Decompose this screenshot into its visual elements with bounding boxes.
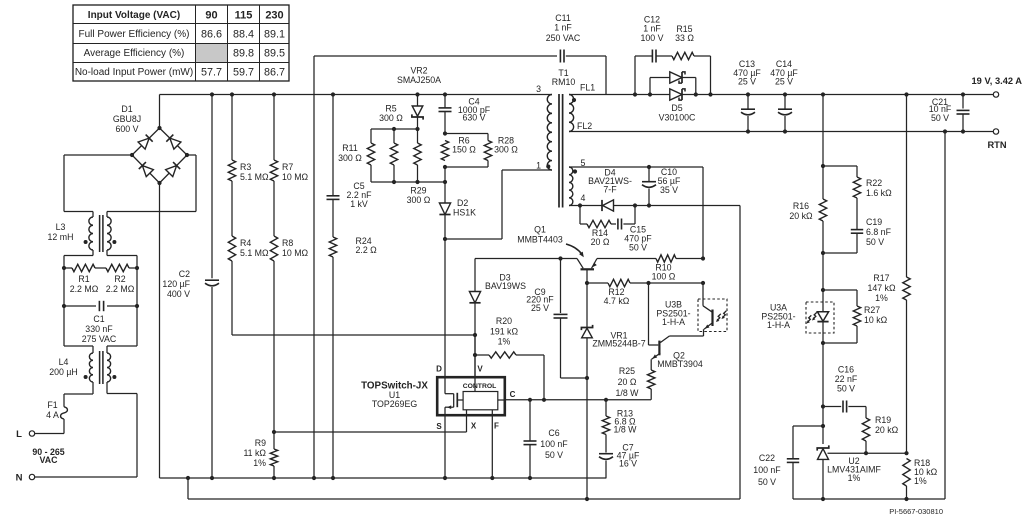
transformer T1 secondary winding FL1-FL2 — [569, 83, 595, 132]
svg-text:R8: R8 — [282, 238, 293, 248]
capacitor C21 — [929, 95, 970, 132]
capacitor C12 — [635, 15, 664, 95]
resistor R15 — [656, 24, 711, 95]
diode D5 lower — [659, 89, 696, 123]
svg-text:100 nF: 100 nF — [540, 439, 568, 449]
svg-text:11 kΩ: 11 kΩ — [243, 448, 266, 458]
svg-text:GBU8J: GBU8J — [113, 114, 141, 124]
node R6 bracket junctions — [443, 131, 447, 169]
resistor R6 — [441, 136, 476, 161]
wire R1R2 to L3 left — [64, 250, 93, 268]
svg-text:191 kΩ: 191 kΩ — [490, 327, 519, 337]
svg-text:300 Ω: 300 Ω — [379, 113, 403, 123]
node RTN rail junctions — [746, 129, 965, 133]
wire U1 F pin — [491, 410, 493, 478]
node clamp bottom junctions — [392, 180, 447, 184]
svg-text:HS1K: HS1K — [453, 208, 476, 218]
svg-text:Input Voltage (VAC): Input Voltage (VAC) — [88, 10, 180, 21]
capacitor C15 — [611, 206, 652, 253]
IC U1 TOPSwitch-JX TOP269EG — [361, 365, 516, 432]
wire U1 drain pin D — [444, 239, 446, 377]
svg-text:X: X — [471, 422, 477, 431]
svg-text:R20: R20 — [496, 316, 512, 326]
node C9 junction — [558, 256, 562, 260]
node output rail junctions — [746, 92, 965, 96]
terminal L — [16, 429, 35, 440]
svg-text:89.8: 89.8 — [233, 47, 254, 59]
svg-text:C11: C11 — [555, 13, 571, 23]
svg-text:25 V: 25 V — [738, 77, 756, 87]
capacitor C2 — [162, 95, 219, 479]
wire source bus to bus2 — [188, 478, 740, 499]
svg-text:100 Ω: 100 Ω — [652, 272, 676, 282]
terminal RTN — [987, 129, 1006, 150]
svg-text:50 V: 50 V — [866, 237, 884, 247]
resistor R4 — [228, 181, 269, 335]
wire V-pin sense line — [232, 334, 475, 336]
resistor R13 — [602, 400, 637, 435]
wire U1 S pin — [444, 415, 446, 478]
svg-text:10 kΩ: 10 kΩ — [864, 315, 888, 325]
transformer T1 bias winding pin5-4 — [569, 158, 586, 205]
capacitor C1 — [64, 301, 137, 344]
capacitor C9 — [526, 259, 587, 379]
node opto LED junctions — [821, 288, 825, 345]
diode D5 upper branch — [650, 72, 696, 95]
svg-text:1/8 W: 1/8 W — [616, 388, 640, 398]
svg-text:5.1 MΩ: 5.1 MΩ — [240, 248, 269, 258]
resistor R9 — [243, 432, 277, 478]
resistor R7 — [270, 95, 308, 183]
fuse F1 — [46, 400, 67, 420]
wire L3 to bridge left — [64, 155, 132, 217]
terminal output +19V — [972, 76, 1023, 97]
svg-text:L4: L4 — [59, 357, 69, 367]
resistor R27 — [823, 290, 888, 343]
svg-text:R5: R5 — [385, 104, 396, 114]
resistor R1 — [70, 264, 99, 294]
svg-text:10 MΩ: 10 MΩ — [282, 248, 309, 258]
svg-text:35 V: 35 V — [660, 185, 678, 195]
resistor R14 — [580, 206, 611, 248]
transformer T1 primary winding pin3-1 — [536, 84, 552, 171]
svg-text:25 V: 25 V — [775, 77, 793, 87]
svg-text:600 V: 600 V — [116, 124, 139, 134]
svg-text:R22: R22 — [866, 178, 882, 188]
svg-text:C2: C2 — [179, 269, 190, 279]
svg-text:50 V: 50 V — [545, 450, 563, 460]
svg-text:RTN: RTN — [987, 140, 1006, 150]
wire U1 V pin — [474, 335, 476, 392]
wire R1R2 to L3 right — [107, 250, 137, 268]
svg-text:7-F: 7-F — [603, 185, 617, 195]
svg-text:R19: R19 — [875, 415, 891, 425]
transistor Q1 MMBT4403 (PNP) — [517, 225, 597, 284]
wire U2 ref line — [828, 452, 907, 454]
resistor R16 — [789, 166, 826, 253]
svg-text:No-load Input Power (mW): No-load Input Power (mW) — [75, 67, 193, 78]
svg-text:59.7: 59.7 — [233, 66, 254, 78]
svg-text:50 V: 50 V — [837, 384, 855, 394]
wire Q1 collector line — [475, 258, 577, 260]
node VR1/C9 junction — [585, 376, 589, 380]
wire R16 to opto LED — [822, 253, 824, 290]
wire secondary ground rail — [793, 132, 945, 500]
capacitor C10 — [642, 167, 681, 206]
wire FL2 RTN rail — [569, 131, 993, 133]
node bus2 junction — [585, 497, 589, 501]
resistor R22 — [823, 166, 892, 198]
svg-text:100 V: 100 V — [641, 33, 664, 43]
svg-text:BAV19WS: BAV19WS — [485, 281, 526, 291]
svg-text:Q1: Q1 — [534, 225, 546, 235]
wire primary source bus — [160, 477, 607, 479]
svg-text:1 kV: 1 kV — [350, 199, 368, 209]
node D5 junctions — [633, 92, 713, 96]
shunt regulator U2 LMV431AIMF — [817, 445, 881, 499]
wire bias return — [739, 206, 741, 500]
svg-text:200 µH: 200 µH — [49, 367, 78, 377]
svg-text:57.7: 57.7 — [201, 66, 222, 78]
svg-text:300 Ω: 300 Ω — [407, 195, 431, 205]
svg-text:C6: C6 — [548, 428, 559, 438]
svg-text:147 kΩ: 147 kΩ — [867, 283, 896, 293]
svg-text:C19: C19 — [866, 217, 882, 227]
capacitor C4 — [439, 95, 491, 134]
wire U1 C pin rail — [498, 399, 651, 401]
svg-text:2.2 MΩ: 2.2 MΩ — [106, 284, 135, 294]
svg-text:275 VAC: 275 VAC — [82, 334, 117, 344]
svg-text:86.6: 86.6 — [201, 28, 222, 40]
svg-text:230: 230 — [265, 9, 283, 21]
svg-text:1.6 kΩ: 1.6 kΩ — [866, 188, 892, 198]
wire pin1 to drain — [445, 170, 552, 239]
svg-text:20 kΩ: 20 kΩ — [875, 425, 899, 435]
node secondary ground junctions — [821, 497, 909, 501]
svg-text:F1: F1 — [47, 400, 57, 410]
label 90-265 VAC — [32, 447, 64, 465]
resistor R24 — [329, 236, 377, 478]
resistor R10 — [597, 255, 703, 282]
svg-text:4 A: 4 A — [46, 410, 59, 420]
svg-text:L3: L3 — [56, 222, 66, 232]
node R12 line junctions — [585, 281, 705, 285]
wire clamp bottom bar — [371, 181, 445, 183]
svg-text:R27: R27 — [864, 305, 880, 315]
wire F1 to L4 — [64, 382, 93, 407]
svg-text:20 Ω: 20 Ω — [591, 237, 610, 247]
svg-text:2.2 Ω: 2.2 Ω — [356, 245, 378, 255]
svg-text:C1: C1 — [93, 314, 104, 324]
optocoupler U3B PS2501-1-H-A (phototransistor) — [656, 299, 727, 336]
svg-text:16 V: 16 V — [619, 459, 637, 469]
svg-text:25 V: 25 V — [531, 303, 549, 313]
node C16 junction — [821, 404, 825, 408]
diode D4 — [569, 168, 740, 212]
wire pin5 rail — [569, 167, 703, 259]
svg-text:50 V: 50 V — [931, 113, 949, 123]
zener diode VR1 — [581, 283, 645, 378]
svg-text:Full Power Efficiency (%): Full Power Efficiency (%) — [79, 29, 190, 40]
capacitor C19 — [823, 198, 892, 253]
resistor R12 — [587, 279, 703, 306]
wire C1 to R1R2 bar — [64, 268, 137, 306]
svg-text:300 Ω: 300 Ω — [338, 153, 362, 163]
svg-text:D2: D2 — [457, 198, 468, 208]
wire bridge to B+ rail — [159, 95, 161, 129]
wire U1 X pin stub — [466, 410, 468, 417]
svg-text:C: C — [510, 390, 516, 399]
svg-text:1-H-A: 1-H-A — [662, 317, 685, 327]
svg-text:1%: 1% — [914, 476, 927, 486]
svg-text:R17: R17 — [873, 273, 889, 283]
svg-text:D: D — [436, 365, 442, 374]
svg-text:ZMM5244B-7: ZMM5244B-7 — [592, 339, 645, 349]
svg-text:D5: D5 — [671, 103, 682, 113]
svg-text:FL2: FL2 — [577, 121, 592, 131]
node R1R2 bar junctions — [62, 266, 139, 270]
svg-text:250 VAC: 250 VAC — [546, 33, 581, 43]
node C1 bar junctions — [62, 304, 139, 308]
wire LED cathode down — [822, 343, 824, 444]
svg-text:6.8 nF: 6.8 nF — [866, 227, 892, 237]
svg-text:R2: R2 — [114, 274, 125, 284]
svg-text:90: 90 — [205, 9, 217, 21]
svg-text:3: 3 — [536, 84, 541, 94]
wire bias+ to opto collector — [702, 283, 704, 306]
resistor R17 — [867, 95, 910, 454]
svg-text:22 nF: 22 nF — [835, 374, 858, 384]
svg-text:1%: 1% — [253, 458, 266, 468]
wire opto emitter to Q2 collector — [669, 335, 703, 337]
svg-text:MMBT3904: MMBT3904 — [657, 359, 703, 369]
svg-text:VAC: VAC — [40, 455, 59, 465]
resistor R29 — [407, 129, 431, 205]
resistor R3 — [228, 95, 269, 183]
resistor R28 — [445, 134, 518, 168]
transistor Q2 MMBT3904 (NPN) — [649, 283, 703, 369]
wire R1R2 bar — [64, 267, 137, 269]
svg-text:88.4: 88.4 — [233, 28, 254, 40]
transformer T1 core — [559, 94, 563, 208]
svg-text:R9: R9 — [255, 438, 266, 448]
svg-text:F: F — [494, 422, 499, 431]
capacitor C6 — [524, 400, 569, 478]
node source bus junctions — [186, 476, 532, 480]
svg-text:R11: R11 — [342, 143, 358, 153]
svg-text:Average Efficiency (%): Average Efficiency (%) — [84, 48, 185, 59]
svg-text:D1: D1 — [121, 104, 132, 114]
svg-text:33 Ω: 33 Ω — [675, 33, 694, 43]
capacitor C16 — [823, 365, 866, 419]
resistor R8 — [270, 181, 308, 432]
wire N to L4 — [35, 382, 137, 477]
drawing number — [889, 507, 943, 516]
svg-text:4: 4 — [581, 193, 586, 203]
svg-text:SMAJ250A: SMAJ250A — [397, 75, 441, 85]
node R10 junction — [701, 256, 705, 260]
wire FL1 output rail — [569, 94, 993, 96]
svg-text:R29: R29 — [410, 186, 426, 196]
svg-text:150 Ω: 150 Ω — [452, 145, 476, 155]
wire L to F1 — [35, 419, 64, 434]
capacitor C13 — [733, 59, 761, 132]
table: efficiency data — [73, 5, 289, 81]
node R16 chain junctions — [821, 164, 825, 255]
svg-text:VR2: VR2 — [410, 66, 427, 76]
svg-text:400 V: 400 V — [167, 289, 190, 299]
svg-text:1%: 1% — [848, 473, 861, 483]
terminal N — [16, 473, 35, 484]
node X line junction — [272, 430, 276, 434]
svg-text:5.1 MΩ: 5.1 MΩ — [240, 172, 269, 182]
inductor L3 (common-mode choke) — [48, 215, 117, 252]
svg-text:RM10: RM10 — [552, 77, 576, 87]
node ref line junctions — [864, 451, 909, 455]
svg-text:115: 115 — [235, 9, 253, 21]
wire clamp to D2 — [444, 167, 446, 203]
svg-text:R16: R16 — [793, 201, 809, 211]
wire L4 to C1 left — [64, 306, 93, 353]
svg-text:89.5: 89.5 — [264, 47, 285, 59]
capacitor C14 — [770, 59, 798, 132]
resistor R19 — [862, 415, 898, 453]
svg-text:V: V — [477, 365, 483, 374]
capacitor C22 — [753, 426, 823, 499]
svg-text:S: S — [436, 422, 442, 431]
wire L3 to bridge right — [107, 155, 196, 217]
wire bridge negative to source bus — [159, 183, 161, 478]
capacitor C7 — [599, 435, 640, 479]
node C rail junctions — [528, 398, 608, 402]
svg-text:1 nF: 1 nF — [554, 23, 572, 33]
svg-text:MMBT4403: MMBT4403 — [517, 235, 563, 245]
diode D2 — [439, 198, 476, 239]
svg-text:1: 1 — [536, 161, 541, 171]
wire L4 to C1 right — [107, 306, 137, 353]
svg-text:89.1: 89.1 — [264, 28, 285, 40]
wire B+ rail — [160, 94, 553, 96]
node B+ rail junctions — [210, 92, 447, 96]
svg-text:4.7 kΩ: 4.7 kΩ — [604, 296, 630, 306]
svg-text:20 Ω: 20 Ω — [618, 377, 637, 387]
node drain junction — [443, 237, 447, 241]
svg-text:C16: C16 — [838, 365, 854, 375]
svg-text:1%: 1% — [875, 293, 888, 303]
svg-text:N: N — [16, 473, 23, 484]
resistor R5 — [379, 104, 403, 183]
svg-text:86.7: 86.7 — [264, 66, 285, 78]
capacitor C11 — [314, 13, 606, 478]
TVS diode VR2 — [397, 66, 441, 130]
resistor R25 — [616, 359, 655, 400]
svg-text:10 MΩ: 10 MΩ — [282, 172, 309, 182]
wire X-pin sense line — [274, 417, 467, 433]
resistor R20 — [475, 316, 544, 400]
svg-text:19 V, 3.42 A: 19 V, 3.42 A — [972, 76, 1023, 86]
svg-text:12 mH: 12 mH — [48, 232, 74, 242]
capacitor C5 — [327, 95, 373, 238]
svg-text:PI-5667-030810: PI-5667-030810 — [889, 507, 943, 516]
inductor L4 (common-mode choke) — [49, 351, 116, 384]
resistor R2 — [106, 264, 135, 294]
svg-text:1-H-A: 1-H-A — [767, 320, 790, 330]
svg-text:CONTROL: CONTROL — [463, 383, 497, 390]
svg-text:L: L — [16, 429, 22, 440]
node pin4 rail junctions — [578, 203, 651, 207]
svg-text:330 nF: 330 nF — [85, 324, 113, 334]
node C22 branch junction — [821, 424, 825, 428]
svg-text:C22: C22 — [759, 453, 775, 463]
svg-text:630 V: 630 V — [463, 113, 486, 123]
wire output+ to R16 chain — [822, 95, 824, 167]
svg-text:120 µF: 120 µF — [162, 279, 190, 289]
svg-text:2.2 MΩ: 2.2 MΩ — [70, 284, 99, 294]
svg-text:TOP269EG: TOP269EG — [372, 399, 417, 409]
svg-text:1/8 W: 1/8 W — [614, 425, 638, 435]
svg-text:300 Ω: 300 Ω — [494, 145, 518, 155]
svg-text:50 V: 50 V — [629, 243, 647, 253]
svg-text:1 nF: 1 nF — [643, 24, 661, 34]
svg-text:1%: 1% — [498, 337, 511, 347]
svg-text:R1: R1 — [78, 274, 89, 284]
node pin5 rail junction — [647, 165, 651, 169]
svg-text:V30100C: V30100C — [659, 113, 696, 123]
svg-text:R3: R3 — [240, 162, 251, 172]
svg-text:50 V: 50 V — [758, 477, 776, 487]
bridge rectifier D1 — [113, 104, 189, 185]
diode D3 — [469, 259, 526, 377]
resistor R18 — [903, 458, 938, 499]
transformer T1 labels — [552, 68, 576, 87]
wire clamp top bar — [371, 128, 418, 130]
svg-text:FL1: FL1 — [580, 83, 595, 93]
node V-pin junctions — [473, 333, 477, 357]
svg-text:20 kΩ: 20 kΩ — [789, 211, 813, 221]
resistor R11 — [338, 129, 375, 182]
wire VR1 to source bus2 — [586, 378, 588, 499]
node clamp top junctions — [392, 127, 420, 131]
svg-text:R7: R7 — [282, 162, 293, 172]
svg-text:R4: R4 — [240, 238, 251, 248]
svg-text:R25: R25 — [619, 366, 635, 376]
optocoupler U3A PS2501-1-H-A (LED) — [761, 290, 834, 343]
svg-text:100 nF: 100 nF — [753, 465, 781, 475]
